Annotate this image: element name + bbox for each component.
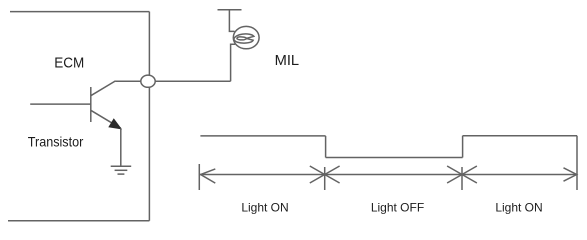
ECM box top edge [10,11,149,13]
ECM box bottom edge [8,220,149,222]
ground bar 3 [118,173,125,175]
svg-text:ECM: ECM [54,55,84,72]
svg-text:MIL: MIL [275,53,300,69]
wire lamp top vertical [229,10,234,32]
waveform high segment 1 [200,135,325,137]
lamp MIL filament [234,34,254,43]
waveform high segment 2 [463,135,577,137]
waveform falling edge [325,136,327,158]
ground bar 2 [115,169,128,171]
dimension line [199,174,577,176]
svg-text:Light ON: Light ON [495,200,542,214]
wire collector diagonal [91,81,116,96]
waveform low segment [326,157,463,159]
wire lamp bottom vertical [231,44,235,81]
waveform right edge drop [576,136,578,190]
wire base lead [30,103,91,105]
ECM box right edge [148,12,150,221]
arrowheads cross mid 1 [310,166,340,183]
power rail bar [218,9,242,11]
svg-text:Light OFF: Light OFF [371,200,424,214]
node junction circle [141,75,155,87]
arrowheads cross mid 2 [447,166,477,183]
wire emitter diagonal [91,110,121,128]
wire emitter vertical [120,128,122,166]
arrowhead left end [201,169,216,183]
ground bar 1 [111,165,132,167]
svg-text:Transistor: Transistor [28,133,84,149]
wire collector to lamp horizontal [116,80,231,82]
transistor Q1 emitter arrowhead [109,119,121,129]
arrowhead right end [564,168,577,181]
waveform rising edge [462,136,464,158]
dimension tick left [198,164,200,190]
dimension tick mid 2 [461,167,463,190]
transistor Q1 base bar [90,87,92,122]
svg-text:Light ON: Light ON [241,200,288,214]
dimension tick mid 1 [324,167,326,190]
lamp MIL bulb circle [233,26,259,48]
